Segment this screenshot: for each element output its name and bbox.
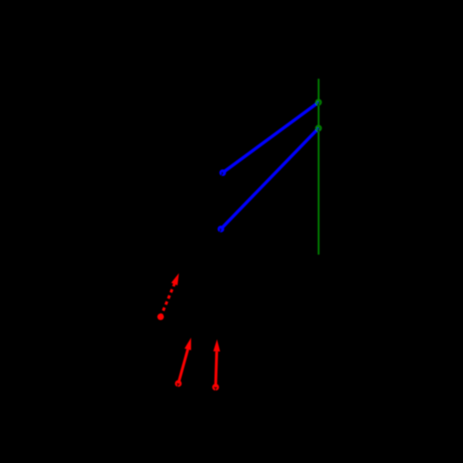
node: red filled dot <box>157 314 164 321</box>
node: green ring marker 1 <box>316 100 321 106</box>
green vertical line <box>318 79 320 255</box>
node: blue ring marker 2 <box>219 227 223 233</box>
node: red ring marker 2 <box>213 385 218 391</box>
wire: red dashed arrow shaft <box>161 284 175 317</box>
red dashed arrow head <box>171 273 179 285</box>
wire: blue vector 1 <box>223 102 319 172</box>
node: red ring marker 1 <box>176 381 181 387</box>
node: blue ring marker 1 <box>221 171 225 177</box>
node: green ring marker 2 <box>316 126 321 132</box>
wire: blue vector 2 <box>221 128 319 229</box>
wire: red arrow 1 shaft <box>178 349 188 383</box>
red arrow 1 head <box>185 338 192 351</box>
wire: red arrow 2 shaft <box>216 351 217 387</box>
red arrow 2 head <box>213 339 220 351</box>
